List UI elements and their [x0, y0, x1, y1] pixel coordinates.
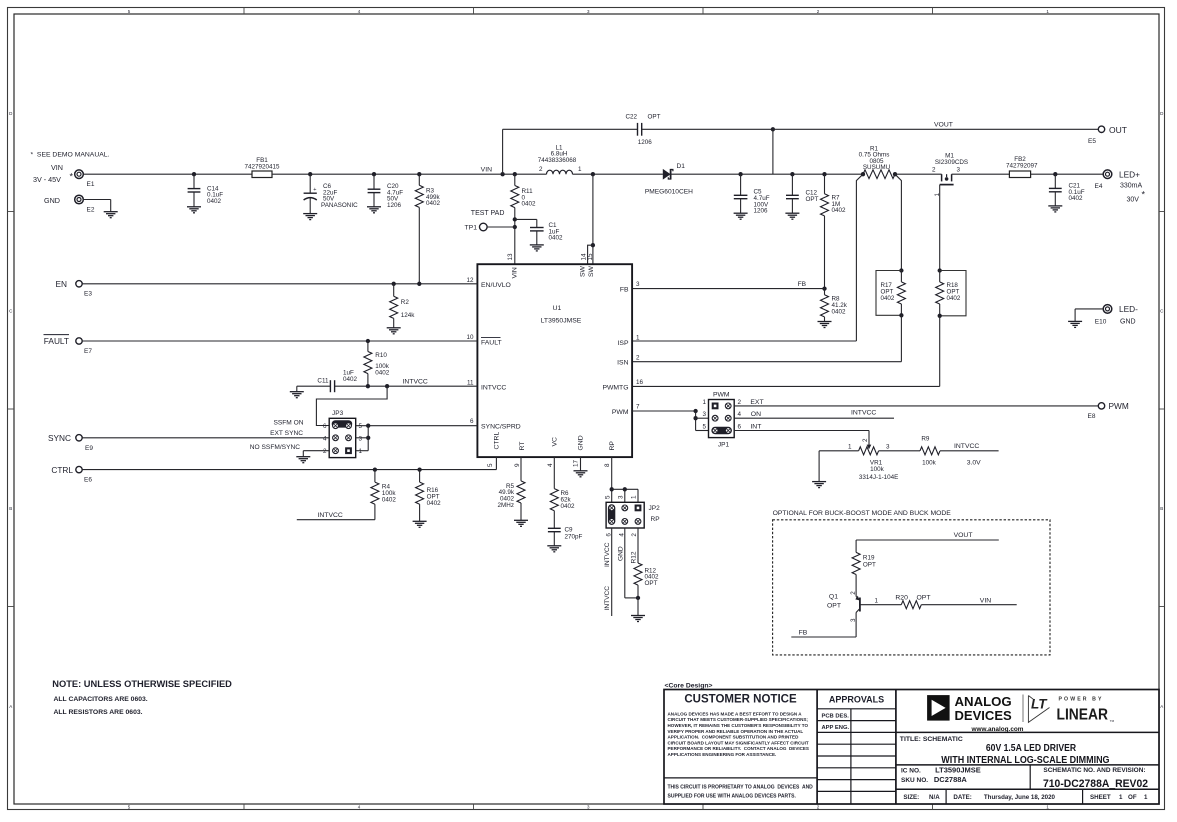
wire top VOUT rail with C22: [503, 128, 638, 130]
resistor R6 62k 0402 on VC: [553, 457, 555, 489]
svg-text:R20: R20: [895, 594, 908, 601]
resistor R12 0402 OPT: [637, 528, 639, 563]
svg-text:THIS CIRCUIT IS PROPRIETARY TO: THIS CIRCUIT IS PROPRIETARY TO ANALOG DE…: [668, 785, 814, 791]
wire INT to VR1 wiper: [734, 430, 869, 432]
svg-text:0402: 0402: [375, 369, 390, 376]
wire RP pin 8 to JP2: [611, 457, 613, 505]
svg-text:ANALOG DEVICES HAS MADE A BEST: ANALOG DEVICES HAS MADE A BEST EFFORT TO…: [668, 711, 803, 716]
svg-text:3: 3: [636, 281, 640, 288]
svg-text:B: B: [1160, 506, 1163, 511]
wire R18 gate line from M1: [939, 185, 941, 271]
svg-text:1: 1: [630, 495, 637, 499]
svg-text:C22: C22: [626, 114, 638, 121]
svg-text:100k: 100k: [870, 466, 885, 473]
svg-text:1: 1: [702, 399, 706, 406]
JP3 pin 1 square: [345, 447, 352, 454]
svg-text:VIN: VIN: [51, 163, 63, 172]
svg-text:1: 1: [875, 597, 879, 604]
svg-text:3: 3: [617, 495, 624, 499]
svg-text:* SEE DEMO MANAUAL.: * SEE DEMO MANAUAL.: [31, 152, 110, 159]
svg-text:OF: OF: [1128, 794, 1137, 801]
svg-text:EXT SYNC: EXT SYNC: [270, 430, 303, 437]
svg-text:1206: 1206: [387, 202, 402, 209]
svg-text:RP: RP: [651, 516, 660, 523]
resistor R16 OPT 0402: [419, 470, 421, 483]
svg-text:A: A: [9, 704, 12, 709]
svg-text:3314J-1-104E: 3314J-1-104E: [859, 474, 899, 481]
connector JP3 SSFM select: [329, 418, 356, 457]
svg-text:1: 1: [1119, 794, 1123, 801]
svg-text:0402: 0402: [343, 376, 358, 383]
svg-text:2: 2: [539, 166, 543, 173]
zone tick marks and labels: [243, 8, 245, 15]
svg-text:LED+: LED+: [1119, 170, 1140, 180]
terminal E7 FAULT input: [76, 338, 82, 344]
svg-text:VIN: VIN: [980, 597, 991, 604]
svg-text:0402: 0402: [832, 207, 847, 214]
svg-text:R2: R2: [401, 299, 410, 306]
resistor R10 100k 0402: [367, 341, 369, 352]
svg-text:VOUT: VOUT: [934, 122, 953, 129]
capacitor C6 22uF 50V PANASONIC polarized: [308, 172, 312, 176]
op IC U1 LT3950JMSE: [477, 264, 632, 457]
svg-text:3V - 45V: 3V - 45V: [33, 175, 61, 184]
svg-text:SSFM ON: SSFM ON: [273, 419, 303, 426]
svg-text:OPT: OPT: [863, 561, 876, 568]
svg-text:5: 5: [487, 463, 494, 467]
svg-text:INTVCC: INTVCC: [403, 379, 428, 386]
svg-text:INTVCC: INTVCC: [318, 512, 343, 519]
svg-text:LT3950JMSE: LT3950JMSE: [541, 317, 582, 324]
svg-text:ALL CAPACITORS ARE 0603.: ALL CAPACITORS ARE 0603.: [54, 696, 148, 703]
svg-text:100k: 100k: [922, 459, 937, 466]
resistor R17 OPT 0402 in box: [899, 268, 903, 272]
JP1 pin 1 square: [712, 403, 719, 410]
svg-text:13: 13: [507, 253, 514, 261]
svg-text:OPT: OPT: [827, 603, 841, 610]
ic no sku row: [896, 788, 1159, 790]
svg-text:E7: E7: [84, 348, 92, 355]
svg-text:6: 6: [738, 424, 742, 431]
svg-text:PWM: PWM: [612, 409, 629, 416]
resistor R20 OPT: [901, 601, 921, 609]
svg-text:FB: FB: [798, 281, 807, 288]
svg-text:2MHz: 2MHz: [498, 502, 514, 509]
customer notice panel: [664, 777, 817, 779]
svg-text:GND: GND: [617, 546, 624, 561]
svg-text:Thursday, June 18, 2020: Thursday, June 18, 2020: [984, 794, 1056, 801]
title row: [896, 731, 1159, 733]
wire R20 to VIN stub: [921, 604, 1016, 606]
svg-text:SIZE:: SIZE:: [903, 794, 919, 801]
svg-text:6: 6: [323, 423, 327, 430]
svg-text:2: 2: [738, 399, 742, 406]
svg-text:710-DC2788A_REV02: 710-DC2788A_REV02: [1043, 778, 1148, 790]
connector JP1 PWM select: [709, 400, 735, 438]
svg-text:INTVCC: INTVCC: [604, 542, 611, 567]
wire ISN sense line lower: [900, 315, 902, 361]
wire M1 drain to FB2: [952, 173, 1010, 175]
svg-text:SYNC: SYNC: [48, 433, 71, 443]
svg-text:EN/UVLO: EN/UVLO: [481, 282, 511, 289]
svg-text:CIRCUIT THAT MEETS CUSTOMER-SU: CIRCUIT THAT MEETS CUSTOMER-SUPPLIED SPE…: [668, 717, 809, 722]
svg-text:R9: R9: [921, 435, 930, 442]
svg-text:E4: E4: [1095, 183, 1103, 190]
ground at C20: [367, 206, 381, 208]
svg-text:0402: 0402: [207, 198, 222, 205]
capacitor C14 0.1uF 0402: [192, 172, 196, 176]
svg-text:APPROVALS: APPROVALS: [829, 695, 884, 705]
svg-text:OUT: OUT: [1109, 125, 1127, 135]
ground at R8: [818, 321, 832, 323]
node FB divider: [822, 286, 826, 290]
svg-text:E3: E3: [84, 290, 92, 297]
terminal E1 VIN input: [75, 170, 84, 179]
wire ON to INTVCC: [734, 417, 894, 419]
wire TP1 to VIN pin: [487, 226, 515, 228]
svg-text:270pF: 270pF: [565, 533, 583, 540]
ground at R5: [514, 519, 528, 521]
svg-text:12: 12: [466, 277, 474, 284]
wire C22 to OUT terminal: [771, 127, 775, 131]
svg-text:2: 2: [631, 533, 638, 537]
terminal E6 CTRL input: [76, 466, 82, 472]
svg-text:0402: 0402: [881, 295, 895, 302]
svg-text:OPTIONAL FOR BUCK-BOOST MODE A: OPTIONAL FOR BUCK-BOOST MODE AND BUCK MO…: [773, 510, 952, 517]
svg-text:DATE:: DATE:: [953, 794, 971, 801]
svg-text:1: 1: [636, 335, 640, 342]
svg-text:SHEET: SHEET: [1090, 794, 1111, 801]
svg-text:OPT: OPT: [648, 114, 661, 121]
dashed option box: [773, 520, 1050, 655]
svg-text:PWM: PWM: [1109, 401, 1129, 411]
svg-text:B: B: [9, 506, 12, 511]
wire FB from U1 to divider: [632, 288, 824, 290]
svg-text:Q1: Q1: [829, 594, 838, 601]
svg-text:0402: 0402: [382, 496, 397, 503]
svg-text:GND: GND: [44, 196, 60, 205]
svg-text:OPT: OPT: [806, 196, 819, 203]
capacitor C22 OPT 1206: [637, 123, 639, 136]
svg-text:SW: SW: [579, 265, 586, 277]
svg-text:5: 5: [702, 424, 706, 431]
svg-text:SCHEMATIC NO. AND REVISION:: SCHEMATIC NO. AND REVISION:: [1043, 767, 1145, 774]
svg-text:LED-: LED-: [1119, 304, 1138, 314]
svg-text:JP2: JP2: [649, 505, 661, 512]
svg-text:*: *: [1142, 190, 1146, 200]
svg-text:A: A: [1160, 704, 1163, 709]
svg-text:2: 2: [932, 166, 936, 173]
svg-text:U1: U1: [553, 305, 562, 312]
svg-text:VIN: VIN: [512, 267, 519, 278]
svg-text:ON: ON: [751, 411, 761, 418]
svg-text:SKU NO.: SKU NO.: [901, 777, 928, 784]
svg-text:330mA: 330mA: [1120, 183, 1143, 190]
svg-text:EXT: EXT: [750, 399, 763, 406]
test pad TP1: [513, 217, 517, 221]
svg-text:8: 8: [604, 463, 611, 467]
svg-text:ISP: ISP: [618, 340, 629, 347]
resistor R9 100k: [920, 447, 940, 455]
svg-text:FB: FB: [620, 286, 629, 293]
terminal E9 SYNC input: [76, 435, 82, 441]
title block frame: [664, 690, 1159, 805]
wire JP3 pins 1 3 tie: [367, 426, 369, 451]
svg-text:NOTE: UNLESS OTHERWISE SPECIFI: NOTE: UNLESS OTHERWISE SPECIFIED: [52, 679, 232, 689]
svg-text:E6: E6: [84, 477, 92, 484]
svg-text:3: 3: [886, 443, 890, 450]
capacitor C5 4.7uF 100V 1206: [738, 172, 742, 176]
svg-text:VIN: VIN: [481, 167, 492, 174]
resistor R19 OPT: [855, 540, 857, 552]
svg-text:FAULT: FAULT: [481, 339, 502, 346]
svg-text:N/A: N/A: [929, 794, 940, 801]
wire EXT to PWM terminal E8: [734, 405, 1098, 407]
svg-text:*: *: [70, 172, 74, 182]
JP2 pin 1 square: [635, 505, 642, 512]
svg-text:LT: LT: [1031, 697, 1048, 712]
svg-text:5: 5: [604, 495, 611, 499]
svg-text:INTVCC: INTVCC: [954, 443, 979, 450]
svg-text:1: 1: [359, 448, 363, 455]
wire PWMTG from U1 to gate: [939, 316, 941, 387]
svg-text:C11: C11: [317, 378, 329, 385]
logo separator: [1022, 695, 1024, 723]
svg-text:WITH INTERNAL LOG-SCALE DIMMIN: WITH INTERNAL LOG-SCALE DIMMING: [941, 755, 1110, 766]
svg-text:SUSUMU: SUSUMU: [863, 164, 891, 171]
ground at VR1: [818, 451, 820, 482]
svg-text:SW: SW: [588, 265, 595, 277]
wire JP3 pin 5 to SYNC/SPRD: [356, 425, 478, 427]
wire Q1 base to R20: [860, 604, 901, 606]
resistor R8 41.2k 0402: [824, 289, 826, 295]
wire L1 to D1: [573, 173, 663, 175]
wire JP2 pin 4 GND: [624, 528, 626, 598]
sense resistor R1 0.75 Ohms 0805 SUSUMU: [863, 170, 895, 179]
terminal E3 EN input: [76, 281, 82, 287]
svg-text:OPT: OPT: [917, 594, 931, 601]
svg-text:5: 5: [359, 423, 363, 430]
power by linear logo: [1028, 696, 1049, 723]
JP3 pin 2 to ground: [303, 450, 329, 452]
ground at C12: [785, 212, 799, 214]
resistor R18 OPT 0402 in box: [938, 268, 942, 272]
svg-text:SUPPLIED FOR USE WITH ANALOG D: SUPPLIED FOR USE WITH ANALOG DEVICES PAR…: [668, 793, 797, 799]
JP3 shunt jumper pins 5-6: [332, 420, 353, 427]
svg-text:1206: 1206: [754, 208, 769, 215]
svg-text:CTRL: CTRL: [51, 465, 73, 475]
mosfet M1 SI2309CDS pfet: [895, 173, 942, 175]
svg-text:TP1: TP1: [465, 225, 478, 232]
svg-text:10: 10: [466, 334, 474, 341]
node VIN to C22 branch: [500, 172, 504, 176]
wire JP2 pin 6 INTVCC stub: [611, 528, 613, 616]
svg-text:PMEG6010CEH: PMEG6010CEH: [645, 189, 693, 196]
svg-text:TITLE: SCHEMATIC: TITLE: SCHEMATIC: [900, 736, 963, 743]
svg-text:TEST PAD: TEST PAD: [471, 210, 505, 217]
resistor R4 100k 0402: [374, 470, 376, 483]
svg-text:IC NO.: IC NO.: [901, 768, 921, 775]
capacitor C1 1uF 0402: [515, 218, 537, 220]
JP1 shunt jumper pins 5-6: [711, 427, 732, 434]
ground at R2: [387, 327, 401, 329]
svg-text:ALL RESISTORS ARE 0603.: ALL RESISTORS ARE 0603.: [54, 709, 143, 716]
svg-text:RP: RP: [609, 441, 616, 451]
diode D1 PMEG6010CEH schottky: [663, 169, 671, 180]
svg-text:DC2788A: DC2788A: [934, 775, 968, 784]
svg-text:FAULT: FAULT: [44, 336, 69, 346]
wire R4 to INTVCC stub: [297, 519, 375, 521]
svg-text:0402: 0402: [522, 201, 537, 208]
ground at R12: [637, 598, 639, 616]
ground at R16: [413, 520, 427, 522]
svg-text:LT3590JMSE: LT3590JMSE: [935, 766, 981, 775]
svg-text:INTVCC: INTVCC: [604, 586, 611, 611]
svg-text:124k: 124k: [401, 312, 416, 319]
svg-text:INTVCC: INTVCC: [851, 410, 876, 417]
svg-text:APPLICATION. COMPONENT SUBSTI: APPLICATION. COMPONENT SUBSTITUTION AND …: [668, 735, 800, 740]
svg-text:+: +: [313, 187, 316, 193]
svg-text:R12: R12: [631, 551, 638, 563]
svg-text:FB: FB: [799, 629, 808, 636]
ground at C14: [187, 206, 201, 208]
svg-text:LINEAR: LINEAR: [1057, 707, 1109, 724]
svg-text:0402: 0402: [947, 295, 961, 302]
terminal E10 LED- with ground: [1103, 305, 1112, 314]
svg-text:2: 2: [862, 438, 869, 442]
svg-text:APP ENG.: APP ENG.: [822, 725, 850, 731]
wire U1 PWM pin 7 to JP1: [632, 410, 696, 412]
ground at E2: [104, 211, 118, 213]
svg-text:POWER BY: POWER BY: [1059, 696, 1104, 702]
wire D1 to R1: [670, 173, 863, 175]
svg-text:PERFORMANCE OR RELIABILITY. C: PERFORMANCE OR RELIABILITY. CONTACT ANAL…: [668, 746, 809, 751]
svg-text:E1: E1: [87, 181, 95, 188]
capacitor C9 270pF: [548, 527, 561, 529]
connector JP2 RP select: [606, 502, 644, 528]
svg-text:PWMTG: PWMTG: [602, 385, 628, 392]
svg-text:2: 2: [636, 354, 640, 361]
svg-text:1: 1: [848, 443, 852, 450]
svg-text:HOWEVER, IT REMAINS THE CUSTOM: HOWEVER, IT REMAINS THE CUSTOMER'S RESPO…: [668, 723, 809, 728]
svg-text:742792097: 742792097: [1006, 163, 1038, 170]
svg-text:VC: VC: [551, 437, 558, 447]
svg-text:NO SSFM/SYNC: NO SSFM/SYNC: [250, 444, 300, 451]
resistor R5 49.9k 0402 2MHz on RT: [520, 457, 522, 481]
ferrite bead FB2 742792097: [1009, 171, 1030, 178]
approvals panel: [817, 708, 896, 710]
wire ISP sense line: [632, 174, 863, 341]
svg-text:JP1: JP1: [718, 442, 730, 449]
resistor R3 499k 0402 VIN to EN/UVLO: [417, 172, 421, 176]
svg-text:0402: 0402: [561, 503, 576, 510]
svg-text:E8: E8: [1088, 413, 1096, 420]
svg-text:3: 3: [359, 435, 363, 442]
svg-text:DEVICES: DEVICES: [955, 708, 1013, 723]
wire ISN sense line upper: [895, 174, 901, 270]
terminal E8 PWM: [1098, 403, 1104, 409]
svg-text:VERIFY PROPER AND RELIABLE OPE: VERIFY PROPER AND RELIABLE OPERATION IN …: [668, 729, 804, 734]
svg-text:SI2309CDS: SI2309CDS: [935, 159, 968, 166]
terminal E4 LED+: [1103, 170, 1112, 179]
wire FB2 to LED+ terminal: [1031, 173, 1104, 175]
svg-text:4: 4: [618, 533, 625, 537]
svg-text:EN: EN: [55, 279, 67, 289]
wire VIN rail E1 to FB1: [83, 173, 252, 175]
ground at C21: [1048, 205, 1062, 207]
svg-text:0402: 0402: [549, 235, 564, 242]
wire VIN rail FB1 to L1: [272, 173, 547, 175]
svg-text:1206: 1206: [638, 139, 653, 146]
svg-text:11: 11: [467, 379, 474, 386]
wire INTVCC rail pin 11: [335, 385, 478, 387]
ground at C9: [547, 545, 561, 547]
svg-text:E10: E10: [1095, 319, 1107, 326]
resistor R7 1M 0402: [822, 172, 826, 176]
svg-text:PWM: PWM: [713, 392, 730, 399]
svg-text:2: 2: [323, 448, 327, 455]
svg-text:OPT: OPT: [645, 580, 658, 587]
svg-text:<Core Design>: <Core Design>: [665, 682, 713, 689]
capacitor C20 4.7uF 50V 1206: [372, 172, 376, 176]
svg-text:JP3: JP3: [332, 410, 344, 417]
capacitor C21 0.1uF 0402: [1053, 172, 1057, 176]
svg-text:1: 1: [1144, 794, 1148, 801]
svg-text:E2: E2: [87, 207, 95, 214]
svg-text:CTRL: CTRL: [493, 432, 500, 450]
ground at C11: [296, 386, 298, 392]
ground at C5: [734, 212, 748, 214]
capacitor C12 OPT: [790, 172, 794, 176]
svg-text:16: 16: [636, 379, 644, 386]
svg-text:INTVCC: INTVCC: [481, 384, 506, 391]
svg-text:VOUT: VOUT: [954, 532, 973, 539]
svg-text:4: 4: [547, 463, 554, 467]
svg-text:0402: 0402: [426, 200, 441, 207]
svg-text:0402: 0402: [427, 500, 442, 507]
svg-text:3.0V: 3.0V: [967, 459, 981, 466]
svg-text:PCB DES.: PCB DES.: [822, 713, 850, 719]
svg-text:1: 1: [578, 166, 582, 173]
svg-text:15: 15: [587, 253, 594, 261]
svg-text:7: 7: [636, 404, 640, 411]
svg-text:PANASONIC: PANASONIC: [321, 202, 358, 209]
wire SYNC to JP3 pin 4: [82, 437, 329, 439]
wire EN to U1 pin 12: [82, 283, 477, 285]
capacitor C11 1uF 0402: [329, 380, 331, 392]
JP2 shunt jumper pins 5-6: [608, 504, 615, 525]
svg-text:TM: TM: [1110, 719, 1115, 723]
wire E2 to ground: [83, 199, 111, 201]
svg-text:SYNC/SPRD: SYNC/SPRD: [481, 424, 521, 431]
potentiometer VR1 100k 3314J-1-104E: [819, 450, 859, 452]
wire Q1 emitter to FB stub: [855, 613, 857, 638]
svg-text:E5: E5: [1088, 138, 1096, 145]
node SW wire down to pins 14 15: [591, 172, 595, 176]
wire FAULT to U1 pin 10: [82, 340, 477, 342]
svg-text:RT: RT: [519, 442, 526, 451]
svg-text:R10: R10: [375, 352, 387, 359]
svg-text:9: 9: [514, 463, 521, 467]
svg-text:GND: GND: [1120, 319, 1136, 326]
svg-text:60V 1.5A LED DRIVER: 60V 1.5A LED DRIVER: [986, 743, 1076, 754]
wire CTRL to U1: [82, 469, 496, 471]
ground at U1 GND pin 17: [580, 457, 582, 471]
transistor Q1 OPT pnp: [859, 598, 861, 612]
ground at C1: [530, 244, 544, 246]
svg-text:3: 3: [702, 411, 706, 418]
svg-text:3: 3: [957, 166, 961, 173]
